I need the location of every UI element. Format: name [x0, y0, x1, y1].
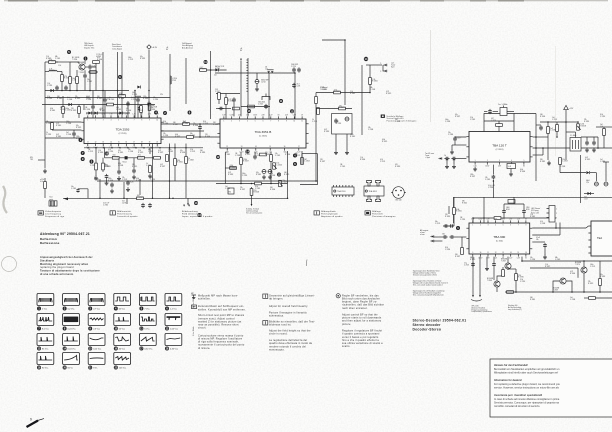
resistor R502 [461, 248, 464, 255]
waveform oscillogram 4 [114, 294, 131, 311]
svg-text:C 2353: C 2353 [47, 98, 52, 100]
svg-text:220: 220 [71, 108, 74, 110]
capacitor C406 [585, 140, 589, 145]
waveform oscillogram 9 [88, 314, 105, 331]
scan edge mark [498, 0, 524, 2]
svg-text:C 2384: C 2384 [448, 134, 453, 136]
svg-text:1k: 1k [146, 163, 148, 165]
svg-text:14: 14 [110, 142, 112, 144]
net label [215, 65, 225, 70]
svg-text:Adjust for overall field linea: Adjust for overall field linearity. [269, 305, 308, 308]
svg-text:8,2k: 8,2k [130, 182, 133, 184]
transistor T501 BC548B [505, 263, 511, 269]
resistor R310 [112, 155, 119, 160]
net label [214, 75, 217, 77]
svg-text:1484: 1484 [506, 207, 510, 209]
svg-text:4,8: 4,8 [265, 67, 267, 69]
wire T top [603, 161, 609, 163]
svg-text:1,2V: 1,2V [133, 114, 136, 116]
wire T503 out [566, 281, 572, 292]
ground G1 [94, 176, 98, 180]
svg-text:Field shift: Field shift [372, 212, 383, 215]
svg-text:R 3318: R 3318 [140, 58, 145, 60]
svg-text:C 2767: C 2767 [215, 91, 220, 93]
svg-text:4,4V: 4,4V [238, 115, 241, 117]
svg-text:C 2345: C 2345 [485, 179, 490, 181]
net label [132, 92, 137, 96]
svg-text:Color-Signal: Color-Signal [112, 48, 122, 50]
wire W2 [73, 137, 75, 138]
svg-text:Posizione verticale d'immagine: Posizione verticale d'immagine [387, 119, 417, 122]
node N55 [583, 260, 585, 262]
wire R303 up [69, 62, 71, 77]
wire x362 tall [361, 65, 363, 135]
svg-text:stellen. Kurzschluß von MP ent: stellen. Kurzschluß von MP entfernen. [198, 308, 246, 311]
svg-text:C 2176: C 2176 [312, 121, 317, 123]
svg-text:0,47: 0,47 [324, 129, 327, 131]
svg-text:Ablenkung 90° 29504-067.21: Ablenkung 90° 29504-067.21 [40, 232, 90, 236]
wire feed x122 [121, 52, 123, 91]
wire arrow link [382, 65, 385, 71]
svg-text:1213: 1213 [584, 198, 588, 200]
waveform oscillogram 14 [63, 334, 80, 351]
capacitor C403 [453, 136, 460, 141]
capacitor C2 [218, 107, 223, 111]
svg-text:For replacing a defective plug: For replacing a defective plug-in board,… [494, 383, 560, 386]
wire x316 down [315, 93, 317, 182]
scan edge mark [320, 0, 340, 2]
w [547, 133, 549, 137]
svg-text:C 2308: C 2308 [188, 160, 194, 162]
svg-text:R 3327: R 3327 [100, 110, 105, 112]
wire U3 right b [533, 147, 612, 149]
svg-text:7: 7 [134, 119, 135, 121]
resistor R12 [317, 108, 320, 115]
svg-text:C 2308: C 2308 [60, 109, 65, 111]
wire R306 dn [62, 113, 64, 118]
wire IC2 p12 down [224, 152, 226, 184]
handwritten mark [27, 418, 45, 428]
wire U3 pin down [492, 165, 494, 174]
resistor R3 [154, 156, 161, 159]
svg-text:16: 16 [284, 146, 286, 148]
svg-text:68k: 68k [295, 153, 298, 155]
svg-text:16: 16 [125, 142, 127, 144]
svg-text:560: 560 [284, 172, 287, 174]
svg-text:220: 220 [445, 214, 448, 216]
node N24 [123, 198, 125, 200]
svg-text:R 3370: R 3370 [518, 277, 524, 279]
net label [215, 89, 220, 93]
svg-text:330: 330 [132, 164, 135, 166]
svg-text:R 3304: R 3304 [97, 59, 102, 61]
svg-text:0,2V: 0,2V [509, 258, 512, 260]
svg-text:68k: 68k [55, 56, 58, 58]
svg-text:0,44 Vss: 0,44 Vss [68, 349, 76, 351]
svg-text:1,2k: 1,2k [47, 83, 50, 85]
svg-text:R 3327: R 3327 [265, 154, 270, 156]
w [544, 248, 546, 255]
wire y183 bus [216, 183, 288, 185]
svg-text:C 2345: C 2345 [109, 99, 114, 101]
svg-text:R 3327: R 3327 [240, 189, 245, 191]
svg-text:9: 9 [380, 63, 381, 65]
wire IC1-IC2 a [161, 123, 220, 125]
legend field linearity [110, 210, 138, 218]
potentiometer R15 [577, 123, 586, 130]
capacitor C311 [83, 73, 87, 78]
svg-text:10k: 10k [322, 87, 325, 89]
svg-text:C 2353: C 2353 [108, 151, 113, 153]
w [346, 134, 348, 150]
legend field shift [365, 211, 396, 218]
svg-text:C 2353: C 2353 [150, 179, 155, 181]
svg-text:47,3: 47,3 [297, 84, 300, 86]
svg-text:C 2284: C 2284 [255, 155, 260, 157]
wire x370 [369, 65, 371, 93]
svg-text:330: 330 [540, 159, 543, 161]
w [484, 111, 487, 113]
svg-text:1n5: 1n5 [225, 186, 228, 188]
wire R301 to T301 base area [56, 61, 70, 63]
svg-text:2k4: 2k4 [600, 124, 603, 126]
waveform oscillogram 19 [37, 353, 54, 370]
svg-text:0,47: 0,47 [585, 157, 588, 159]
ground G15 [450, 150, 454, 154]
diode D1 [50, 89, 53, 92]
svg-text:85 Vss: 85 Vss [42, 349, 48, 351]
wire R307 dn [78, 113, 80, 118]
w [149, 148, 151, 154]
svg-text:68k: 68k [370, 87, 373, 89]
scan edge mark [360, 0, 390, 2]
w [559, 164, 561, 172]
waveform oscillogram 7 [37, 314, 54, 331]
svg-text:C 2318: C 2318 [464, 264, 469, 266]
ground G9 [262, 175, 266, 179]
svg-text:4,4V: 4,4V [486, 219, 489, 221]
diode D4 [88, 112, 91, 115]
wire rail under IC1 [84, 147, 203, 149]
w [586, 226, 588, 228]
scan edge mark [470, 0, 486, 2]
node N33 [270, 183, 272, 185]
wire C301 down [89, 70, 91, 91]
svg-text:0,62 Vss: 0,62 Vss [144, 349, 152, 351]
wire L301 out [57, 71, 62, 73]
node marker 4 [154, 111, 158, 115]
net label [553, 288, 559, 292]
svg-text:R 3304: R 3304 [119, 98, 124, 100]
wire U3 left pin2 [452, 144, 466, 146]
capacitor C312 [76, 189, 79, 193]
svg-text:C 2308: C 2308 [66, 123, 71, 125]
diode D5 [94, 112, 97, 115]
svg-text:3,9k: 3,9k [470, 117, 473, 119]
wire y269 [508, 268, 516, 270]
svg-text:100n: 100n [128, 57, 132, 59]
svg-text:C 2353: C 2353 [304, 161, 310, 163]
svg-text:C 2284: C 2284 [85, 109, 90, 111]
diode pair D310 [267, 70, 273, 73]
node N15 [127, 147, 129, 149]
svg-text:10mV: 10mV [117, 114, 121, 116]
resistor R504 [507, 291, 514, 294]
connector pin X1 [384, 64, 387, 67]
svg-text:C 2318: C 2318 [47, 85, 52, 87]
w [51, 121, 53, 124]
scan noise [0, 0, 1, 1]
net label [291, 64, 298, 68]
net label [320, 87, 328, 91]
node N58 [552, 291, 554, 293]
scan edge mark [230, 0, 256, 2]
svg-text:C960 S8P: C960 S8P [291, 64, 298, 66]
svg-text:C 2308: C 2308 [128, 151, 133, 153]
wire feed 2 [117, 52, 119, 118]
svg-text:R 3361: R 3361 [57, 98, 62, 100]
svg-text:R 3370: R 3370 [200, 69, 206, 71]
svg-text:C 2308: C 2308 [118, 165, 123, 167]
svg-text:15k: 15k [153, 97, 156, 99]
w [559, 223, 561, 236]
node N38 [152, 198, 154, 200]
svg-text:C 2345: C 2345 [276, 164, 282, 166]
svg-text:C 2176: C 2176 [203, 123, 208, 125]
svg-text:R294: R294 [506, 209, 510, 211]
svg-text:7,3V: 7,3V [494, 219, 497, 221]
node N16 [135, 147, 137, 149]
node N28 [199, 123, 201, 125]
node marker 2 [163, 111, 167, 115]
svg-text:5060-5601: 5060-5601 [258, 102, 265, 104]
diode D9 [587, 192, 590, 195]
svg-text:10k: 10k [530, 257, 533, 259]
svg-text:C 2176: C 2176 [552, 119, 557, 121]
svg-text:Deflessione: Deflessione [40, 241, 60, 245]
svg-text:R 3304: R 3304 [540, 116, 545, 118]
svg-text:17: 17 [298, 146, 300, 148]
net label [501, 259, 507, 263]
w [126, 198, 128, 204]
node N17 [143, 147, 145, 149]
node N41 [493, 180, 495, 182]
svg-text:C 2284: C 2284 [445, 249, 450, 251]
w [455, 236, 467, 238]
svg-text:1n5: 1n5 [570, 297, 573, 299]
svg-text:R 3318: R 3318 [228, 174, 233, 176]
node N5 [89, 90, 91, 92]
svg-text:C 2284: C 2284 [65, 110, 71, 112]
svg-text:R 3327: R 3327 [545, 266, 550, 268]
instruction col3 [342, 330, 383, 349]
scan edge mark [420, 0, 444, 2]
test point MP [49, 196, 57, 207]
arrow down 1 [472, 295, 474, 297]
wire feed IC2 c [247, 94, 249, 116]
svg-text:0,2V: 0,2V [297, 152, 300, 154]
svg-text:R 3327: R 3327 [160, 166, 165, 168]
wire y122 [540, 121, 566, 123]
node N35 [369, 92, 371, 94]
svg-text:9 Vs: 9 Vs [93, 368, 97, 370]
svg-text:4,7μ 0,68: 4,7μ 0,68 [488, 185, 495, 187]
svg-text:33n: 33n [442, 234, 445, 236]
svg-text:1: 1 [87, 119, 88, 121]
diode D8 [586, 171, 589, 174]
wire U3 right a [533, 136, 548, 138]
node N40 [287, 198, 289, 200]
svg-text:0,25V: 0,25V [478, 219, 482, 221]
wire R305 down [76, 83, 78, 90]
net label [71, 186, 76, 190]
wire IC1-IC2 b [161, 130, 204, 132]
svg-text:6V: 6V [523, 166, 525, 168]
svg-text:3,9k: 3,9k [270, 173, 273, 175]
svg-text:C 2353: C 2353 [46, 134, 51, 136]
svg-text:5: 5 [380, 71, 381, 73]
svg-text:C 2176: C 2176 [131, 99, 136, 101]
w [493, 111, 498, 113]
svg-text:In caso di schede ad innesto d: In caso di schede ad innesto difettose c… [494, 398, 560, 401]
wire U4 p10 down [479, 257, 481, 295]
svg-text:0,47k: 0,47k [297, 85, 301, 87]
node N48 [535, 136, 537, 138]
svg-text:1k: 1k [444, 155, 446, 157]
node N47 [597, 147, 599, 149]
svg-text:2,8V: 2,8V [509, 219, 512, 221]
svg-text:C 2308: C 2308 [235, 155, 240, 157]
arrow MP [64, 197, 68, 200]
wire rail Y104 [42, 104, 155, 106]
svg-text:service. However, service inst: service. However, service instructions o… [494, 387, 560, 390]
svg-text:Avvertenza per i rivenditori s: Avvertenza per i rivenditori specializza… [494, 394, 542, 397]
w [256, 73, 258, 80]
w [199, 130, 201, 137]
capacitor C315 [136, 97, 140, 102]
node N10 [87, 147, 89, 149]
svg-text:a1,2k: a1,2k [40, 179, 44, 181]
svg-text:C 2284: C 2284 [146, 165, 151, 167]
svg-text:8,2k: 8,2k [600, 114, 603, 116]
node N44 [556, 136, 558, 138]
waveform oscillogram 1 [37, 294, 54, 311]
capacitor C9 [117, 169, 121, 174]
svg-text:8,2k: 8,2k [86, 97, 89, 99]
svg-text:1n5: 1n5 [552, 117, 555, 119]
w [542, 148, 544, 155]
svg-text:C58: C58 [215, 89, 218, 91]
net label Ton-ZF [425, 153, 435, 159]
wire y268 [530, 267, 578, 269]
arrow down 2 [479, 295, 481, 297]
w [88, 71, 98, 73]
diode D2 [137, 86, 140, 89]
pinout TO-3 can [391, 187, 406, 202]
svg-text:R 3304: R 3304 [126, 110, 131, 112]
wire drop x188 [187, 198, 189, 203]
wire y168 [225, 167, 236, 169]
net label [586, 180, 590, 184]
svg-text:330: 330 [455, 254, 458, 256]
wire T502 c up [497, 276, 505, 281]
scan edge mark [8, 0, 38, 2]
node N53 [507, 268, 509, 270]
svg-text:9: 9 [30, 418, 32, 422]
svg-text:C 2176: C 2176 [128, 59, 133, 61]
wire T301 e down [76, 70, 78, 77]
wire c stub3 [148, 101, 150, 104]
svg-text:R 3361: R 3361 [350, 93, 355, 95]
capacitor C22 [148, 203, 152, 208]
svg-text:4,7k: 4,7k [540, 221, 543, 223]
svg-text:10n: 10n [71, 186, 74, 188]
svg-text:47µ: 47µ [256, 172, 259, 174]
capacitor C1 [138, 106, 142, 111]
node marker 7 [81, 151, 85, 155]
w [233, 103, 235, 117]
svg-text:33n: 33n [150, 177, 153, 179]
node marker 6 [118, 75, 122, 79]
wire feed x186b [185, 58, 187, 104]
svg-text:4,4V: 4,4V [102, 114, 105, 116]
svg-text:R 3327: R 3327 [175, 136, 180, 138]
wire U4 p9 down [472, 257, 474, 295]
capacitor C314 [297, 67, 301, 72]
wire to x536 [514, 113, 536, 115]
svg-text:TBA 120 T: TBA 120 T [492, 143, 507, 147]
net label [526, 207, 530, 211]
svg-text:C 2176: C 2176 [590, 266, 595, 268]
capacitor C14 [264, 104, 268, 109]
w [270, 152, 272, 155]
svg-text:2: 2 [487, 160, 488, 162]
wire r stub [140, 105, 142, 106]
resistor R403 [559, 158, 568, 165]
svg-text:0,22: 0,22 [228, 172, 231, 174]
svg-text:C 2176: C 2176 [190, 151, 195, 153]
sub-module box [332, 114, 352, 135]
ground G13 [445, 164, 449, 168]
capacitor C19 [334, 118, 338, 123]
w2 [434, 240, 442, 242]
instruction col2 [269, 294, 315, 300]
svg-text:4,7k: 4,7k [380, 159, 383, 161]
node N27 [210, 69, 212, 71]
svg-text:100n: 100n [445, 119, 449, 121]
svg-text:6V: 6V [525, 219, 527, 221]
w [453, 159, 455, 165]
svg-text:90 Vss: 90 Vss [42, 368, 48, 370]
wire to edge [596, 126, 612, 128]
ground G12 [345, 150, 349, 154]
svg-text:4,7k: 4,7k [116, 107, 119, 109]
node marker 16 [247, 109, 251, 113]
svg-text:5: 5 [503, 224, 504, 226]
svg-text:1,278: 1,278 [122, 202, 126, 204]
svg-text:0,47: 0,47 [119, 96, 122, 98]
resistor R322 [334, 89, 341, 94]
svg-text:R 3304: R 3304 [113, 157, 119, 159]
w [251, 187, 253, 189]
svg-text:2,8V: 2,8V [261, 115, 264, 117]
wire y184 jog [300, 184, 318, 186]
pinout DIP14 TDA2593 [332, 185, 354, 197]
svg-text:15k: 15k [122, 177, 125, 179]
resistor R332 [225, 98, 234, 105]
svg-text:1,2k: 1,2k [98, 150, 101, 152]
transistor T301 BC548B [78, 62, 86, 74]
